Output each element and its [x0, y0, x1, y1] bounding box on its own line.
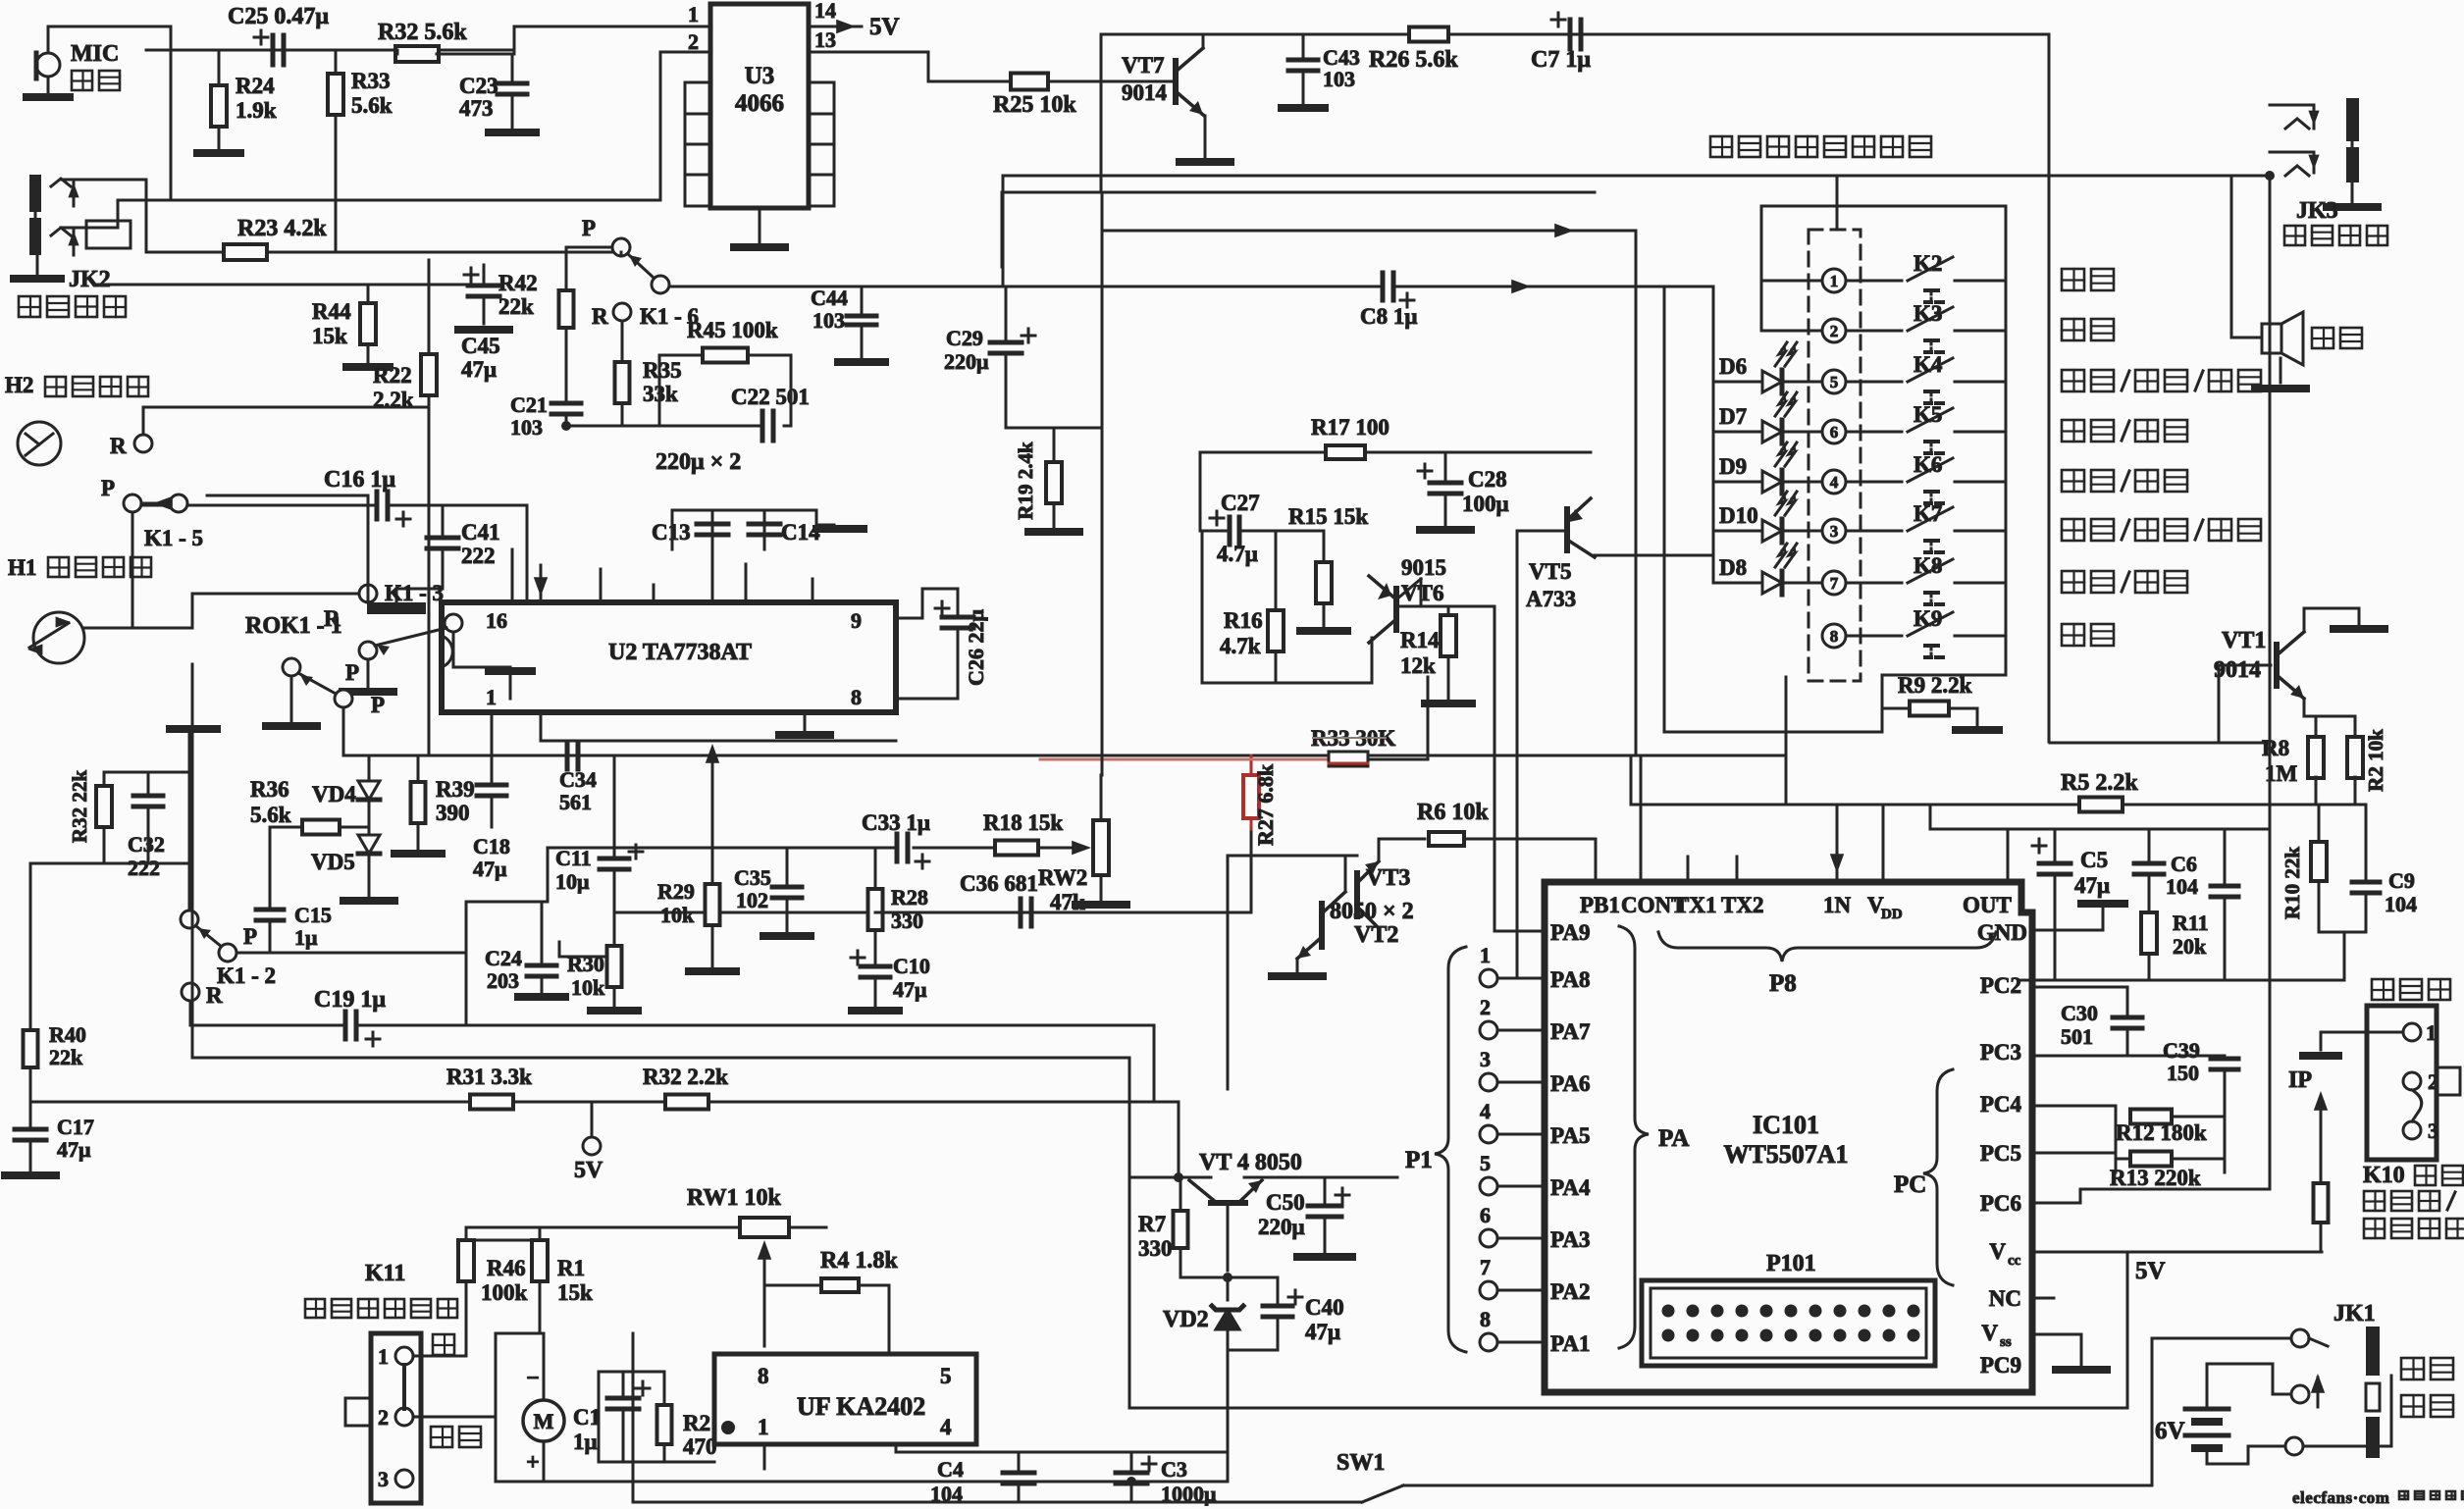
label P rok	[371, 693, 385, 717]
svg-text:IC101: IC101	[1753, 1111, 1819, 1139]
svg-text:K2: K2	[1914, 251, 1942, 276]
svg-text:5.6k: 5.6k	[351, 93, 393, 118]
wire y1078 bus	[192, 1058, 1129, 1177]
wire r46 top	[466, 1239, 540, 1242]
wire pc5	[2032, 1153, 2116, 1172]
wire p1 pin 1	[1497, 977, 1545, 980]
wire row K7	[1846, 530, 2006, 533]
svg-text:10k: 10k	[660, 903, 695, 927]
svg-text:K1 - 2: K1 - 2	[217, 963, 276, 988]
wire vt1 base	[2050, 665, 2271, 743]
resistor R33 30K red	[1311, 726, 1395, 766]
record head H1	[27, 612, 84, 663]
ground C45	[458, 330, 509, 382]
node pin 5 circled	[1822, 370, 1846, 393]
node pin 3 circled	[1822, 519, 1846, 543]
wire bottom y1531	[633, 1501, 1305, 1504]
svg-text:C19 1μ: C19 1μ	[314, 987, 386, 1013]
resistor R5	[2061, 770, 2138, 812]
svg-text:3: 3	[1480, 1047, 1491, 1071]
switch K8	[1908, 553, 1953, 604]
ground under R9	[1956, 708, 1999, 730]
wire r5 bus	[1631, 755, 2366, 805]
red line	[1040, 758, 1329, 761]
svg-text:5V: 5V	[2135, 1258, 2166, 1284]
microphone MIC	[36, 53, 60, 78]
svg-text:PA5: PA5	[1550, 1123, 1590, 1148]
LED D8	[1713, 544, 1822, 595]
wire p1 pin 4	[1497, 1133, 1545, 1136]
U3 left cells	[685, 82, 710, 206]
wire r16 bot	[1275, 651, 1278, 683]
wire 5v stub	[591, 1102, 594, 1137]
svg-text:PA3: PA3	[1550, 1227, 1590, 1252]
ground c44	[838, 358, 885, 366]
svg-text:13: 13	[814, 27, 836, 52]
wire c27 net	[1202, 531, 1372, 683]
terminal P1 pin 8	[1480, 1307, 1497, 1351]
svg-text:PB1: PB1	[1580, 893, 1620, 917]
svg-text:C39: C39	[2163, 1038, 2200, 1063]
resistor R30	[567, 946, 622, 1007]
svg-text:10μ: 10μ	[555, 869, 590, 894]
cap C26	[935, 601, 988, 686]
wire r10 c9 join	[2319, 932, 2366, 980]
label normal	[431, 1427, 481, 1447]
wire cont up	[1640, 755, 1643, 882]
wire p1 pin 5	[1497, 1185, 1545, 1188]
svg-text:470: 470	[683, 1434, 717, 1459]
cap C6	[2134, 829, 2198, 912]
svg-text:R19 2.4k: R19 2.4k	[1014, 442, 1037, 520]
svg-text:1μ: 1μ	[573, 1430, 598, 1454]
resistor R45	[687, 318, 778, 363]
cap C34	[492, 742, 614, 814]
terminal jk1 a	[2291, 1329, 2309, 1347]
ground under U3	[734, 208, 785, 247]
svg-text:9: 9	[851, 608, 862, 633]
wire r23 line	[146, 251, 224, 254]
wire vert x1123	[1101, 192, 1104, 775]
brace P8	[1658, 932, 1996, 997]
svg-text:104: 104	[2166, 874, 2198, 899]
label JK2 外接话筒	[19, 267, 126, 317]
label action row 337	[2062, 319, 2114, 340]
wire pin13 net	[809, 52, 1011, 81]
svg-text:TX1: TX1	[1674, 893, 1716, 917]
wire vt3 conn	[1228, 839, 1425, 1089]
cap C4	[930, 1452, 1034, 1506]
svg-text:501: 501	[2061, 1024, 2093, 1049]
ground gnd-pin up	[2081, 900, 2124, 908]
svg-text:R5 2.2k: R5 2.2k	[2061, 770, 2138, 796]
wire h2 r	[143, 285, 429, 435]
P101 pins	[1662, 1305, 1920, 1342]
cap C35	[734, 848, 802, 932]
wire pc4	[2032, 1106, 2116, 1117]
svg-text:5V: 5V	[869, 14, 900, 40]
svg-text:C24: C24	[485, 946, 522, 970]
resistor R16	[1220, 608, 1284, 658]
wire r17 bus	[1200, 452, 1591, 531]
svg-text:47μ: 47μ	[1305, 1320, 1340, 1344]
terminal k10 3	[2403, 1119, 2438, 1143]
svg-text:R15 15k: R15 15k	[1288, 504, 1368, 529]
svg-text:WT5507A1: WT5507A1	[1723, 1140, 1848, 1169]
svg-text:9014: 9014	[2214, 657, 2261, 683]
wire ip down	[2320, 1137, 2323, 1183]
wire vt7 collector	[1202, 34, 1205, 48]
svg-text:103: 103	[510, 415, 543, 440]
ground vt1 top	[2333, 625, 2385, 633]
wire c40 bot	[1228, 1349, 1278, 1352]
svg-text:8: 8	[851, 685, 862, 709]
wire row K2	[1846, 280, 2006, 283]
terminal P1 pin 4	[1480, 1099, 1497, 1143]
cap C28	[1418, 452, 1509, 525]
IC U2 TA7738AT	[442, 602, 896, 712]
ground c28	[1420, 526, 1471, 534]
svg-text:47μ: 47μ	[2074, 873, 2110, 898]
svg-text:TX2: TX2	[1721, 893, 1763, 917]
svg-text:R18 15k: R18 15k	[983, 810, 1063, 835]
svg-text:220μ: 220μ	[1258, 1215, 1305, 1239]
label JK3 耳机插孔	[2284, 198, 2387, 245]
svg-text:K1 - 3: K1 - 3	[385, 581, 444, 605]
wire bottom y1510	[496, 1481, 1228, 1483]
svg-text:C36 681: C36 681	[960, 871, 1038, 896]
svg-text:R6 10k: R6 10k	[1417, 800, 1489, 825]
label action row 389	[2062, 370, 2261, 391]
wire k16	[267, 247, 622, 426]
terminal P K1-5	[101, 476, 203, 550]
wire pin1 down	[491, 712, 494, 755]
ground r30	[591, 1007, 638, 1015]
node pin 4 circled	[1822, 470, 1846, 494]
svg-text:C17: C17	[57, 1115, 94, 1139]
wire vcc 5V	[2032, 1252, 2322, 1408]
resistor R28	[868, 848, 928, 965]
svg-text:D7: D7	[1719, 404, 1747, 429]
wire pc3	[2032, 1055, 2190, 1058]
solid switch box	[1761, 206, 2006, 708]
resistor R13	[2110, 1152, 2201, 1191]
pin stubs top	[1688, 857, 1737, 880]
ground k13b	[453, 667, 532, 671]
svg-text:PA6: PA6	[1550, 1071, 1590, 1096]
terminal jk1 c	[2285, 1437, 2303, 1455]
wire vt2 conn	[1297, 856, 1345, 971]
cap C6b	[2211, 829, 2238, 980]
wire r32b c32	[30, 772, 192, 883]
wire ka2402 pin1	[763, 1444, 766, 1469]
svg-text:C27: C27	[1221, 491, 1260, 515]
svg-text:4: 4	[1830, 473, 1839, 492]
svg-text:C10: C10	[893, 954, 930, 978]
wire c26	[896, 589, 958, 699]
resistor R42	[464, 265, 499, 324]
svg-text:R29: R29	[657, 879, 695, 904]
ground c14	[816, 525, 864, 529]
svg-text:R22: R22	[373, 363, 412, 388]
LED D7	[1713, 392, 1822, 443]
svg-text:C16 1μ: C16 1μ	[324, 467, 395, 493]
label right pins	[1980, 973, 2022, 1378]
svg-text:VT1: VT1	[2222, 628, 2266, 653]
svg-text:UF KA2402: UF KA2402	[797, 1392, 925, 1421]
wire row K6	[1846, 481, 2006, 484]
ground under C23	[489, 129, 536, 136]
ground under MIC	[26, 93, 70, 101]
battery 6V	[2155, 1364, 2228, 1464]
junction r35	[561, 421, 571, 431]
transistor VT1	[2214, 628, 2304, 699]
svg-text:V: V	[1989, 1239, 2006, 1264]
svg-text:P8: P8	[1769, 970, 1797, 997]
svg-text:390: 390	[436, 801, 470, 825]
resistor R32a	[378, 20, 467, 62]
svg-text:203: 203	[487, 968, 519, 993]
svg-text:C6: C6	[2171, 852, 2197, 876]
wire pc2	[2032, 986, 2127, 989]
switch SW1	[1305, 1450, 2152, 1502]
svg-text:222: 222	[461, 544, 496, 568]
svg-text:8: 8	[1480, 1307, 1491, 1331]
svg-text:2: 2	[688, 29, 699, 54]
svg-text:R16: R16	[1224, 608, 1263, 633]
label IP	[2288, 1067, 2312, 1093]
cap C30	[2061, 987, 2142, 1056]
terminal R h2	[110, 434, 152, 458]
svg-text:K4: K4	[1914, 352, 1943, 377]
pin labels U3	[688, 0, 836, 54]
junction dot jk3	[2265, 171, 2275, 181]
diode VD4	[312, 755, 380, 836]
svg-text:150: 150	[2167, 1061, 2199, 1085]
wire pins1-2 rail	[1761, 206, 1837, 331]
label action row 594	[2062, 571, 2187, 593]
svg-text:220μ: 220μ	[944, 349, 989, 374]
wire p1 pin 3	[1497, 1081, 1545, 1084]
cap C36	[960, 871, 1038, 926]
svg-text:C1: C1	[573, 1405, 601, 1430]
logo cjk	[2399, 1491, 2464, 1499]
wire p1 pin 8	[1497, 1341, 1545, 1344]
svg-text:R39: R39	[436, 777, 475, 802]
svg-text:8050 × 2: 8050 × 2	[1330, 899, 1414, 924]
wire top main	[146, 49, 514, 52]
svg-text:P: P	[371, 693, 385, 717]
IC KA2402	[714, 1354, 976, 1444]
ground r39	[394, 850, 442, 858]
svg-text:JK2: JK2	[69, 267, 111, 292]
svg-text:1: 1	[688, 2, 699, 26]
svg-text:P: P	[243, 924, 257, 949]
terminal P1 pin 7	[1480, 1255, 1497, 1299]
svg-text:PA: PA	[1658, 1125, 1689, 1152]
wire rw1	[466, 1227, 826, 1240]
wire k13 p	[367, 659, 370, 687]
wire gnd pin	[2032, 907, 2103, 930]
wire r6 out	[1464, 839, 1596, 882]
terminal P1 pin 6	[1480, 1203, 1497, 1247]
wire y845 bus	[1930, 805, 2270, 882]
LED D10	[1713, 492, 1822, 543]
ground c35	[763, 932, 811, 940]
wire below u2	[541, 712, 896, 741]
svg-text:R2: R2	[683, 1411, 710, 1435]
svg-text:R8: R8	[2262, 736, 2289, 760]
cap C1	[573, 1372, 650, 1454]
svg-text:DD: DD	[1881, 907, 1903, 922]
node pin 2 circled	[1822, 319, 1846, 342]
connector JK2 jack	[29, 175, 131, 255]
resistor R34 unlabeled	[559, 290, 574, 328]
svg-text:VT 4 8050: VT 4 8050	[1199, 1150, 1302, 1175]
wire 5V pin14	[809, 26, 862, 28]
ground r19	[1028, 528, 1079, 536]
svg-text:C26 22μ: C26 22μ	[964, 609, 988, 686]
brace PA	[1619, 926, 1689, 1348]
label 5V right	[2135, 1258, 2166, 1284]
svg-text:K10: K10	[2363, 1163, 2405, 1188]
cap C27	[1210, 491, 1260, 566]
wire led common rail	[1712, 286, 1715, 583]
ground below u2	[779, 731, 830, 739]
wire c39 top	[2190, 1055, 2225, 1058]
svg-text:C23: C23	[459, 74, 498, 98]
svg-text:R23 4.2k: R23 4.2k	[237, 216, 327, 241]
resistor R1	[532, 1227, 593, 1333]
switch ROK1-1	[245, 613, 352, 707]
svg-text:PA4: PA4	[1550, 1175, 1591, 1200]
svg-text:R32 22k: R32 22k	[68, 770, 91, 843]
wire k11 p2	[413, 1416, 496, 1419]
wire k11 p1	[413, 1355, 466, 1358]
svg-text:K7: K7	[1914, 501, 1942, 526]
wire left loop	[632, 1333, 635, 1502]
switch K1-2	[170, 729, 276, 988]
resistor R26	[1369, 27, 1458, 74]
svg-text:PC2: PC2	[1980, 973, 2021, 998]
resistor R31	[446, 1065, 532, 1110]
resistor R36	[250, 777, 340, 835]
svg-text:6: 6	[1480, 1203, 1491, 1227]
ground IP	[2303, 1052, 2338, 1060]
svg-text:H1: H1	[8, 555, 36, 580]
svg-text:16: 16	[486, 608, 507, 633]
wire row K3	[1846, 330, 2006, 333]
cap C17	[15, 1102, 94, 1171]
wire r18	[914, 847, 1084, 850]
svg-text:ROK1 - 1: ROK1 - 1	[245, 613, 342, 639]
svg-text:5: 5	[940, 1364, 952, 1388]
junction vt4	[1174, 1172, 1183, 1182]
svg-text:C40: C40	[1305, 1295, 1344, 1320]
svg-text:100k: 100k	[481, 1280, 528, 1305]
svg-text:1μ: 1μ	[294, 925, 318, 950]
label R42 22k	[498, 271, 538, 319]
diode VD5	[311, 835, 380, 897]
wire top right bus	[1101, 34, 2049, 742]
svg-text:R4 1.8k: R4 1.8k	[820, 1248, 898, 1274]
label 八芯扁平电缆连接	[1710, 136, 1931, 157]
svg-text:473: 473	[459, 96, 494, 121]
terminal P1 pin 1	[1480, 943, 1497, 987]
resistor R12	[2116, 1110, 2207, 1146]
transistor VT2	[1297, 892, 1398, 959]
terminal P1 pin 5	[1480, 1151, 1497, 1195]
capacitor C23	[459, 54, 527, 128]
svg-text:102: 102	[736, 888, 768, 912]
cap C15	[256, 903, 332, 953]
label K10 desc	[2363, 1163, 2464, 1238]
wire vt6 emitter	[1371, 638, 1374, 683]
capacitor C16	[324, 467, 410, 526]
wire long y179	[1003, 176, 2270, 230]
svg-text:D9: D9	[1719, 454, 1747, 479]
cap C18	[473, 755, 510, 881]
svg-text:cc: cc	[2008, 1253, 2021, 1269]
svg-text:12k: 12k	[1400, 653, 1436, 678]
IC IC101 outline	[1545, 882, 2032, 1392]
wire lineA	[1102, 231, 1636, 755]
svg-text:VT5: VT5	[1529, 559, 1571, 584]
svg-text:561: 561	[559, 790, 592, 814]
svg-text:P101: P101	[1766, 1251, 1816, 1276]
svg-text:R27 6.8k: R27 6.8k	[1253, 763, 1278, 846]
ground under JK2	[14, 255, 61, 279]
resistor R17	[1311, 415, 1389, 459]
cap C19	[314, 987, 386, 1046]
cap C21	[510, 328, 581, 440]
svg-text:R26 5.6k: R26 5.6k	[1369, 47, 1458, 73]
svg-text:PC9: PC9	[1980, 1353, 2021, 1378]
svg-text:1: 1	[486, 685, 497, 709]
connector P101	[1642, 1251, 1935, 1366]
cap C13	[652, 510, 728, 549]
svg-text:VD4: VD4	[312, 782, 356, 807]
svg-text:R1: R1	[557, 1256, 585, 1280]
wire row K5	[1846, 431, 2006, 434]
resistor R35	[615, 358, 682, 406]
wire batt loop	[2207, 1364, 2391, 1464]
wire pc9 bottom	[1545, 1407, 2127, 1410]
wire y864 bus	[466, 848, 897, 902]
svg-text:R25 10k: R25 10k	[993, 92, 1076, 118]
resistor R7	[1138, 1180, 1188, 1277]
svg-text:C15: C15	[294, 903, 332, 927]
switch K5	[1908, 402, 1953, 453]
svg-text:2: 2	[378, 1405, 389, 1430]
ground r29	[689, 967, 736, 975]
svg-text:PC4: PC4	[1980, 1092, 2022, 1117]
svg-text:220μ × 2: 220μ × 2	[655, 449, 741, 475]
label 电源插孔	[2401, 1358, 2453, 1417]
cap C50	[1258, 1177, 1349, 1252]
resistor R19	[1014, 428, 1062, 528]
wire wiper down	[763, 1277, 766, 1346]
ground under speaker	[2255, 385, 2306, 392]
svg-text:P: P	[101, 476, 115, 500]
svg-text:3: 3	[1830, 522, 1839, 541]
RW1 wiper	[758, 1240, 771, 1277]
wire pin4 down	[895, 1444, 898, 1452]
k10 side tab	[2437, 1067, 2460, 1095]
svg-text:C29: C29	[946, 326, 983, 350]
node pin 8 circled	[1822, 624, 1846, 648]
cap C33	[862, 810, 930, 868]
